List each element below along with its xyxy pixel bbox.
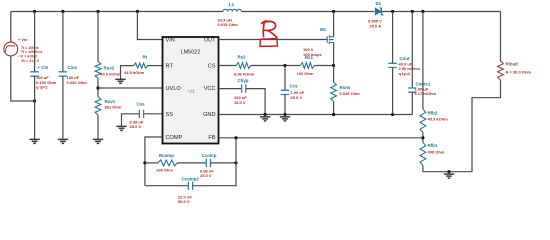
capacitor Coutx1 xyxy=(411,12,413,89)
node: Ccs return on gnd rail xyxy=(283,113,286,116)
svg-text:Ruv1: Ruv1 xyxy=(105,99,116,104)
svg-text:16.0 V: 16.0 V xyxy=(234,100,246,105)
node: input rail / Cinx xyxy=(61,10,64,13)
ground below Css xyxy=(121,124,123,126)
capacitor Cout xyxy=(392,12,394,64)
ground on gnd rail (Cbyp) xyxy=(264,115,266,117)
svg-text:VCC: VCC xyxy=(204,86,216,92)
wire OUT pin to MOSFET gate xyxy=(219,39,328,41)
capacitor C_inx xyxy=(62,12,64,72)
node: input rail / VIN pin drop xyxy=(136,10,139,13)
resistor Rt xyxy=(148,65,163,67)
ground below Ruv1 xyxy=(97,137,99,139)
svg-text:Css: Css xyxy=(137,102,146,107)
wire Rs2 to CS filter node xyxy=(251,65,300,67)
resistor Rsns xyxy=(333,66,335,83)
node: Vin return joins Cin xyxy=(33,99,36,102)
svg-text:SS: SS xyxy=(166,112,174,118)
svg-text:8.06 kOhm: 8.06 kOhm xyxy=(234,71,255,76)
wire Vin minus lead to Cin node xyxy=(11,56,35,101)
svg-text:25.0 V: 25.0 V xyxy=(200,173,212,178)
capacitor C_in (electrolytic) xyxy=(34,12,36,72)
node: Cbyp return on gnd rail xyxy=(264,113,267,116)
node: FB divider tap xyxy=(421,136,424,139)
ground at output return xyxy=(448,172,450,174)
wire output rail from D1 cathode to Rload xyxy=(381,11,500,13)
transistor M1 (N-MOSFET) xyxy=(332,10,335,13)
svg-text:Tr = 100 ns: Tr = 100 ns xyxy=(21,46,39,50)
svg-text:25.0 V: 25.0 V xyxy=(291,95,303,100)
resistor Rfb1 xyxy=(420,143,426,166)
svg-text:OUT: OUT xyxy=(204,38,216,44)
annotation: red handwritten R xyxy=(262,21,277,38)
wire COMP pin into compensation loop xyxy=(145,137,163,186)
wire GND pin rail xyxy=(219,114,413,116)
wire rail to VIN pin xyxy=(137,12,162,40)
svg-text:Ccs: Ccs xyxy=(290,84,299,89)
node: MOSFET source / Rsns xyxy=(332,64,335,67)
capacitor Css xyxy=(144,113,163,115)
resistor Rs1 xyxy=(300,63,314,69)
ground on gnd rail (Ccs) xyxy=(284,115,286,117)
capacitor Ccs xyxy=(284,66,286,91)
resistor Rfb2 xyxy=(422,12,424,110)
svg-text:D1: D1 xyxy=(376,1,382,6)
node: comp loop right xyxy=(234,161,237,164)
svg-text:43.0 kOhm: 43.0 kOhm xyxy=(100,71,121,76)
node: Rsns return on gnd rail xyxy=(332,113,335,116)
inductor L1 xyxy=(223,9,242,11)
node: input rail / Ruv2 xyxy=(96,10,99,13)
svg-text:Rsns: Rsns xyxy=(340,85,351,90)
svg-text:Cbyp: Cbyp xyxy=(238,78,249,83)
node: UVLO divider tap xyxy=(96,86,99,89)
capacitor Ccomp xyxy=(177,162,206,164)
svg-text:GND: GND xyxy=(203,112,215,118)
node: output rail / Coutx xyxy=(411,10,414,13)
svg-text:100 Ohm: 100 Ohm xyxy=(297,71,314,76)
svg-text:R = 30.0 Ohm: R = 30.0 Ohm xyxy=(506,70,532,75)
svg-text:LM5022: LM5022 xyxy=(181,50,201,56)
svg-text:0.045 Ohm: 0.045 Ohm xyxy=(340,91,361,96)
wire Rload return to ground run xyxy=(423,80,501,172)
svg-text:20.0 A: 20.0 A xyxy=(370,23,382,28)
svg-text:+ Vin: + Vin xyxy=(18,37,28,42)
svg-text:390 Ohm: 390 Ohm xyxy=(428,149,445,154)
svg-text:Rfb1: Rfb1 xyxy=(428,143,438,148)
resistor Rload xyxy=(500,12,502,62)
wire UVLO tap to UVLO pin xyxy=(98,87,163,89)
svg-text:6.17 mOhm: 6.17 mOhm xyxy=(415,91,437,96)
node: comp loop left xyxy=(143,161,146,164)
svg-text:COMP: COMP xyxy=(166,135,183,141)
resistor Rcomp xyxy=(145,162,158,164)
svg-text:q ty=2: q ty=2 xyxy=(36,85,48,90)
node: input rail / Cin xyxy=(33,10,36,13)
svg-text:Vh = 21.2 V: Vh = 21.2 V xyxy=(21,59,40,63)
svg-text:Rs1: Rs1 xyxy=(305,55,314,60)
svg-text:M1: M1 xyxy=(320,27,327,32)
node: Cout return on gnd rail xyxy=(391,113,394,116)
svg-text:0.030 Ohm: 0.030 Ohm xyxy=(67,80,88,85)
svg-text:VIN: VIN xyxy=(166,38,175,44)
node: output rail / Rfb2 xyxy=(421,10,424,13)
resistor Ruv2 xyxy=(97,12,99,62)
node: ground stem on return run xyxy=(447,170,450,173)
svg-text:25.0 V: 25.0 V xyxy=(130,124,142,129)
svg-text:UVLO: UVLO xyxy=(166,86,182,92)
svg-text:0.015 Ohm: 0.015 Ohm xyxy=(218,22,239,27)
svg-text:CS: CS xyxy=(208,64,216,70)
svg-text:Tf = 10000 ns: Tf = 10000 ns xyxy=(21,50,43,54)
diode D1 xyxy=(375,8,381,15)
svg-text:Ccomp2: Ccomp2 xyxy=(182,177,200,182)
svg-text:45.3 kOhm: 45.3 kOhm xyxy=(428,117,449,122)
svg-text:Rfb2: Rfb2 xyxy=(428,111,438,116)
svg-text:FB: FB xyxy=(208,135,215,141)
svg-text:Rt: Rt xyxy=(143,54,148,59)
svg-text:44.5 kOhm: 44.5 kOhm xyxy=(124,70,145,75)
svg-text:Ruv2: Ruv2 xyxy=(104,65,115,70)
capacitor Ccomp2 xyxy=(145,185,189,187)
resistor Rs2 xyxy=(219,65,237,67)
svg-text:RT: RT xyxy=(166,64,174,70)
svg-text:Rcomp: Rcomp xyxy=(159,153,174,158)
ground below Rt xyxy=(120,77,122,79)
ground below Cin xyxy=(34,137,36,139)
svg-text:U1: U1 xyxy=(188,89,194,95)
svg-text:961 Ohm: 961 Ohm xyxy=(105,104,122,109)
resistor Ruv1 xyxy=(95,97,101,115)
ground below Cinx xyxy=(62,137,64,139)
node: CS filter xyxy=(283,64,286,67)
svg-text:50.0 V: 50.0 V xyxy=(178,199,190,204)
svg-text:Rload: Rload xyxy=(506,62,519,67)
svg-text:L1: L1 xyxy=(229,2,235,7)
svg-text:Cinx: Cinx xyxy=(68,65,78,70)
wire FB pin to divider tap xyxy=(219,137,423,139)
wire top input rail from Vin to L1 xyxy=(11,11,223,13)
wire switch-node rail from L1 to D1 anode xyxy=(242,11,375,13)
node: comp loop joins FB line xyxy=(234,136,237,139)
svg-text:Rs2: Rs2 xyxy=(238,55,247,60)
voltage source Vin xyxy=(10,12,12,43)
svg-text:q ty=2: q ty=2 xyxy=(399,71,411,76)
node: output rail / Cout xyxy=(391,10,394,13)
op-amp/IC U1 LM5022 xyxy=(163,37,219,144)
capacitor Cbyp on VCC xyxy=(219,88,242,90)
svg-text:+ Cin: + Cin xyxy=(38,65,49,70)
svg-text:Ccomp: Ccomp xyxy=(202,153,217,158)
annotation: red handwritten box on gate wire xyxy=(260,39,277,47)
svg-text:Cout: Cout xyxy=(400,56,411,61)
svg-text:108 Ohm: 108 Ohm xyxy=(156,168,173,173)
